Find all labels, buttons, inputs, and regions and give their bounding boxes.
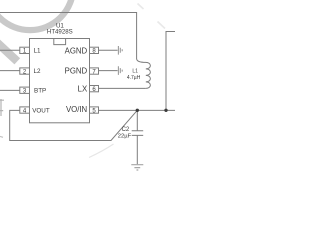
pin 6 box <box>90 86 99 92</box>
svg-text:LX: LX <box>78 84 88 93</box>
pin 5 box <box>90 107 99 113</box>
svg-text:AGND: AGND <box>65 46 88 55</box>
IC U1 body <box>30 39 90 123</box>
wire pin 1 <box>0 49 20 51</box>
svg-text:C2: C2 <box>122 127 130 133</box>
wire VO/IN net <box>99 109 176 111</box>
pin 4 box <box>20 107 30 113</box>
pin 8 box <box>90 47 99 53</box>
svg-text:VOUT: VOUT <box>32 108 50 115</box>
svg-text:4.7µH: 4.7µH <box>127 75 141 81</box>
wire pin 7 to ground <box>99 70 118 72</box>
IC notch <box>54 39 66 45</box>
wire pin 2 <box>0 70 20 72</box>
inductor L1 <box>137 59 151 88</box>
wire pin 3 <box>0 89 20 91</box>
svg-text:L1: L1 <box>132 68 138 74</box>
pin 1 box <box>20 47 30 53</box>
wire VOUT net <box>10 110 138 140</box>
svg-text:BTP: BTP <box>34 88 46 95</box>
wire VIN top net <box>0 13 137 60</box>
svg-text:22µF: 22µF <box>118 134 132 140</box>
ground C2 <box>131 165 143 170</box>
ground PGND <box>118 66 122 75</box>
svg-text:HT4928S: HT4928S <box>47 28 73 35</box>
wire pin 8 to ground <box>99 49 118 51</box>
svg-text:VO/IN: VO/IN <box>66 105 87 114</box>
svg-text:L2: L2 <box>34 68 42 75</box>
wire right vertical to edge <box>166 32 175 111</box>
pin 7 box <box>90 68 99 74</box>
wire LX pin6 to L1 <box>99 87 146 89</box>
junction node right <box>164 109 167 112</box>
capacitor C2 <box>132 110 144 164</box>
svg-text:L1: L1 <box>34 48 42 55</box>
ground AGND <box>118 46 122 55</box>
junction node VO/IN C2 <box>136 109 139 112</box>
pin 3 box <box>20 87 30 93</box>
pin 2 box <box>20 68 30 74</box>
svg-text:PGND: PGND <box>65 67 88 76</box>
